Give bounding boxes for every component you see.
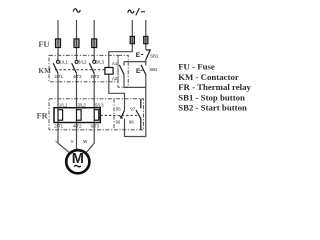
svg-text:FR: FR [37, 111, 49, 120]
svg-text:4/T2: 4/T2 [73, 74, 82, 79]
svg-text:1/L1: 1/L1 [60, 59, 69, 64]
svg-text:2/T1: 2/T1 [54, 74, 63, 79]
svg-text:4/T2: 4/T2 [73, 123, 82, 128]
svg-text:3/L2: 3/L2 [77, 102, 86, 107]
svg-text:6/T3: 6/T3 [91, 74, 100, 79]
svg-text:KM - Contactor: KM - Contactor [178, 72, 239, 82]
svg-text:96: 96 [116, 119, 121, 124]
svg-text:97: 97 [130, 106, 135, 111]
svg-text:SB2: SB2 [149, 67, 158, 72]
svg-text:95: 95 [116, 106, 121, 111]
svg-text:SB1: SB1 [150, 53, 159, 58]
svg-text:SB2 - Start button: SB2 - Start button [178, 103, 247, 113]
svg-text:FR - Thermal relay: FR - Thermal relay [178, 82, 251, 92]
svg-text:5/L3: 5/L3 [96, 59, 105, 64]
svg-text:A2: A2 [112, 76, 118, 81]
svg-text:V: V [71, 139, 74, 144]
svg-text:1/L1: 1/L1 [59, 102, 68, 107]
svg-text:3/L2: 3/L2 [78, 59, 87, 64]
svg-text:E: E [136, 68, 141, 75]
svg-text:SB1 - Stop button: SB1 - Stop button [178, 92, 245, 102]
svg-text:FU - Fuse: FU - Fuse [178, 62, 215, 72]
svg-text:98: 98 [129, 119, 134, 124]
svg-text:M: M [72, 151, 84, 167]
svg-text:5/L3: 5/L3 [95, 102, 104, 107]
svg-text:E: E [136, 52, 141, 59]
svg-text:KM: KM [38, 66, 51, 75]
svg-text:FU: FU [38, 40, 49, 49]
svg-text:6/T3: 6/T3 [91, 123, 100, 128]
svg-text:A1: A1 [112, 61, 118, 66]
svg-text:2/T1: 2/T1 [54, 123, 63, 128]
svg-text:U: U [56, 139, 59, 144]
